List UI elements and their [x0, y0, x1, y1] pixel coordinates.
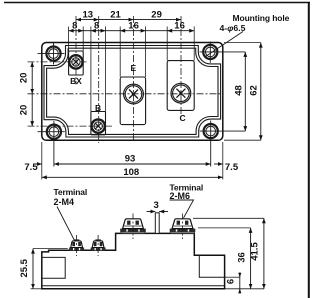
center line horizontal BX [28, 61, 89, 63]
dimension 29 [134, 19, 182, 21]
mounting hole TL [38, 43, 65, 65]
extension lines bottom of top view [42, 142, 223, 180]
svg-text:48: 48 [233, 85, 244, 96]
dimension 48 [244, 52, 246, 131]
svg-text:20: 20 [19, 105, 30, 116]
svg-text:21: 21 [110, 9, 121, 20]
extension lines terminal rect edges [69, 27, 195, 112]
dimension 25.5 [33, 248, 68, 250]
dimension 16 C [167, 30, 194, 32]
mounting hole TR [200, 42, 246, 63]
center line vertical E [133, 16, 135, 140]
dimension 20 upper [31, 62, 33, 94]
mounting hole BR [200, 121, 246, 167]
svg-text:20: 20 [19, 73, 30, 84]
terminal B rect [91, 112, 106, 135]
outer case outline (top view) [42, 43, 223, 141]
svg-text:29: 29 [151, 9, 162, 20]
leader 2-M4 [57, 207, 75, 242]
svg-text:62: 62 [248, 85, 259, 96]
svg-text:C: C [180, 113, 186, 123]
svg-text:7.5: 7.5 [24, 162, 38, 173]
front view case outline [42, 233, 225, 288]
dimension 62 [260, 43, 262, 141]
svg-text:2-M6: 2-M6 [170, 191, 191, 201]
dimension 8 B [91, 30, 106, 32]
terminal B screw [92, 119, 105, 132]
svg-text:36: 36 [236, 252, 247, 263]
terminal E rect [120, 77, 145, 125]
svg-text:108: 108 [123, 167, 139, 178]
svg-text:13: 13 [83, 9, 94, 20]
front view left flange [42, 257, 65, 278]
front view right flange [199, 255, 224, 277]
front view base upper line [42, 285, 225, 287]
dimension 36 [250, 228, 252, 289]
svg-text:Mounting hole: Mounting hole [233, 13, 290, 23]
dimension 8 BX [69, 30, 84, 32]
extension lines right of front view [193, 218, 264, 288]
center line horizontal B [28, 125, 113, 127]
dimension 3 pin [147, 211, 156, 213]
lid contour outer line with corner notches [44, 46, 221, 138]
extension lines right side [224, 43, 261, 141]
dimension 16 E [120, 30, 145, 32]
svg-text:6: 6 [226, 279, 237, 284]
mounting hole BL [38, 121, 65, 167]
dimension 41.5 [263, 218, 265, 288]
dimension 108 [42, 176, 223, 178]
svg-text:8: 8 [72, 20, 77, 31]
leader mounting hole label [206, 32, 244, 57]
svg-text:2-M4: 2-M4 [54, 197, 75, 207]
svg-text:B: B [95, 103, 101, 113]
front M6 screw E [120, 214, 146, 240]
dimension 93 [54, 163, 211, 165]
page top border [4, 2, 310, 4]
terminal BX screw [69, 55, 82, 68]
dimension 7.5 left [34, 163, 42, 165]
page right border [308, 2, 310, 298]
center line vertical B [98, 16, 100, 143]
svg-text:93: 93 [125, 154, 136, 165]
svg-text:7.5: 7.5 [225, 162, 239, 173]
dimension 21 [99, 19, 134, 21]
svg-text:16: 16 [174, 20, 185, 31]
front M6 screw C [170, 214, 196, 240]
svg-text:25.5: 25.5 [19, 258, 30, 277]
dimension 6 [239, 273, 241, 294]
terminal BX rect [69, 51, 84, 75]
terminal C screw [171, 83, 191, 103]
leader 2-M6 [170, 200, 194, 218]
svg-text:Terminal: Terminal [54, 187, 88, 197]
front M4 screw BX [69, 235, 84, 256]
terminal E screw [124, 84, 144, 104]
center line vertical BX [75, 16, 77, 85]
svg-text:16: 16 [128, 20, 139, 31]
dimension 13 [76, 19, 99, 21]
base bottom extension left [31, 288, 42, 290]
svg-text:8: 8 [94, 20, 99, 31]
lid contour inner line with corner notches [47, 48, 218, 134]
terminal C rect [167, 61, 194, 111]
front M4 screw B [91, 235, 106, 256]
dimension 20 lower [31, 94, 33, 126]
center line horizontal E C [28, 93, 223, 95]
svg-text:4-φ6.5: 4-φ6.5 [220, 23, 246, 33]
svg-text:3: 3 [154, 200, 159, 211]
front pin [155, 213, 159, 234]
dimension 7.5 right [214, 163, 223, 165]
center line vertical C [180, 16, 182, 117]
dimension row2 connecting segments [83, 30, 167, 32]
svg-text:41.5: 41.5 [250, 242, 261, 261]
